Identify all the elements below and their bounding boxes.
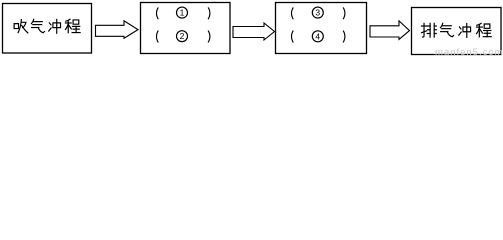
吸	[14, 20, 28, 33]
text 排气冲程 in box4: x=421..492, y 22.6..37.6	[421, 23, 491, 37]
（ line1	[157, 7, 159, 19]
arrow 3	[370, 21, 410, 40]
程	[65, 19, 80, 32]
parens and circled digits box3	[292, 7, 345, 42]
冲	[49, 19, 61, 33]
circle 3	[312, 7, 323, 18]
arrow 1	[96, 21, 139, 39]
） line1	[343, 7, 345, 19]
气	[440, 23, 453, 36]
（ line1	[292, 7, 294, 19]
parens and circled digits box2	[157, 7, 210, 42]
circle 4	[312, 31, 323, 42]
svg-text:manfen5.com: manfen5.com	[435, 47, 503, 57]
冲	[459, 24, 471, 38]
） line1	[208, 7, 210, 19]
text 吸气冲程 in box1: glyphs at x=13..80, y 18.5..33.5	[14, 19, 80, 33]
（ line2	[157, 31, 159, 43]
box: intake stroke	[3, 4, 92, 54]
svg-text:1: 1	[180, 8, 185, 18]
circle 2	[177, 31, 188, 42]
） line2	[343, 31, 345, 43]
box: step 1-2	[141, 3, 231, 54]
程	[476, 23, 491, 36]
svg-text:4: 4	[315, 31, 320, 41]
svg-text:2: 2	[180, 31, 185, 41]
排	[421, 23, 436, 37]
svg-text:3: 3	[315, 8, 320, 18]
气	[31, 19, 44, 32]
circle 1	[177, 7, 188, 18]
box: exhaust stroke	[412, 8, 502, 55]
（ line2	[292, 31, 294, 43]
arrow 2	[233, 23, 275, 40]
） line2	[208, 31, 210, 43]
box: step 3-4	[276, 3, 367, 54]
